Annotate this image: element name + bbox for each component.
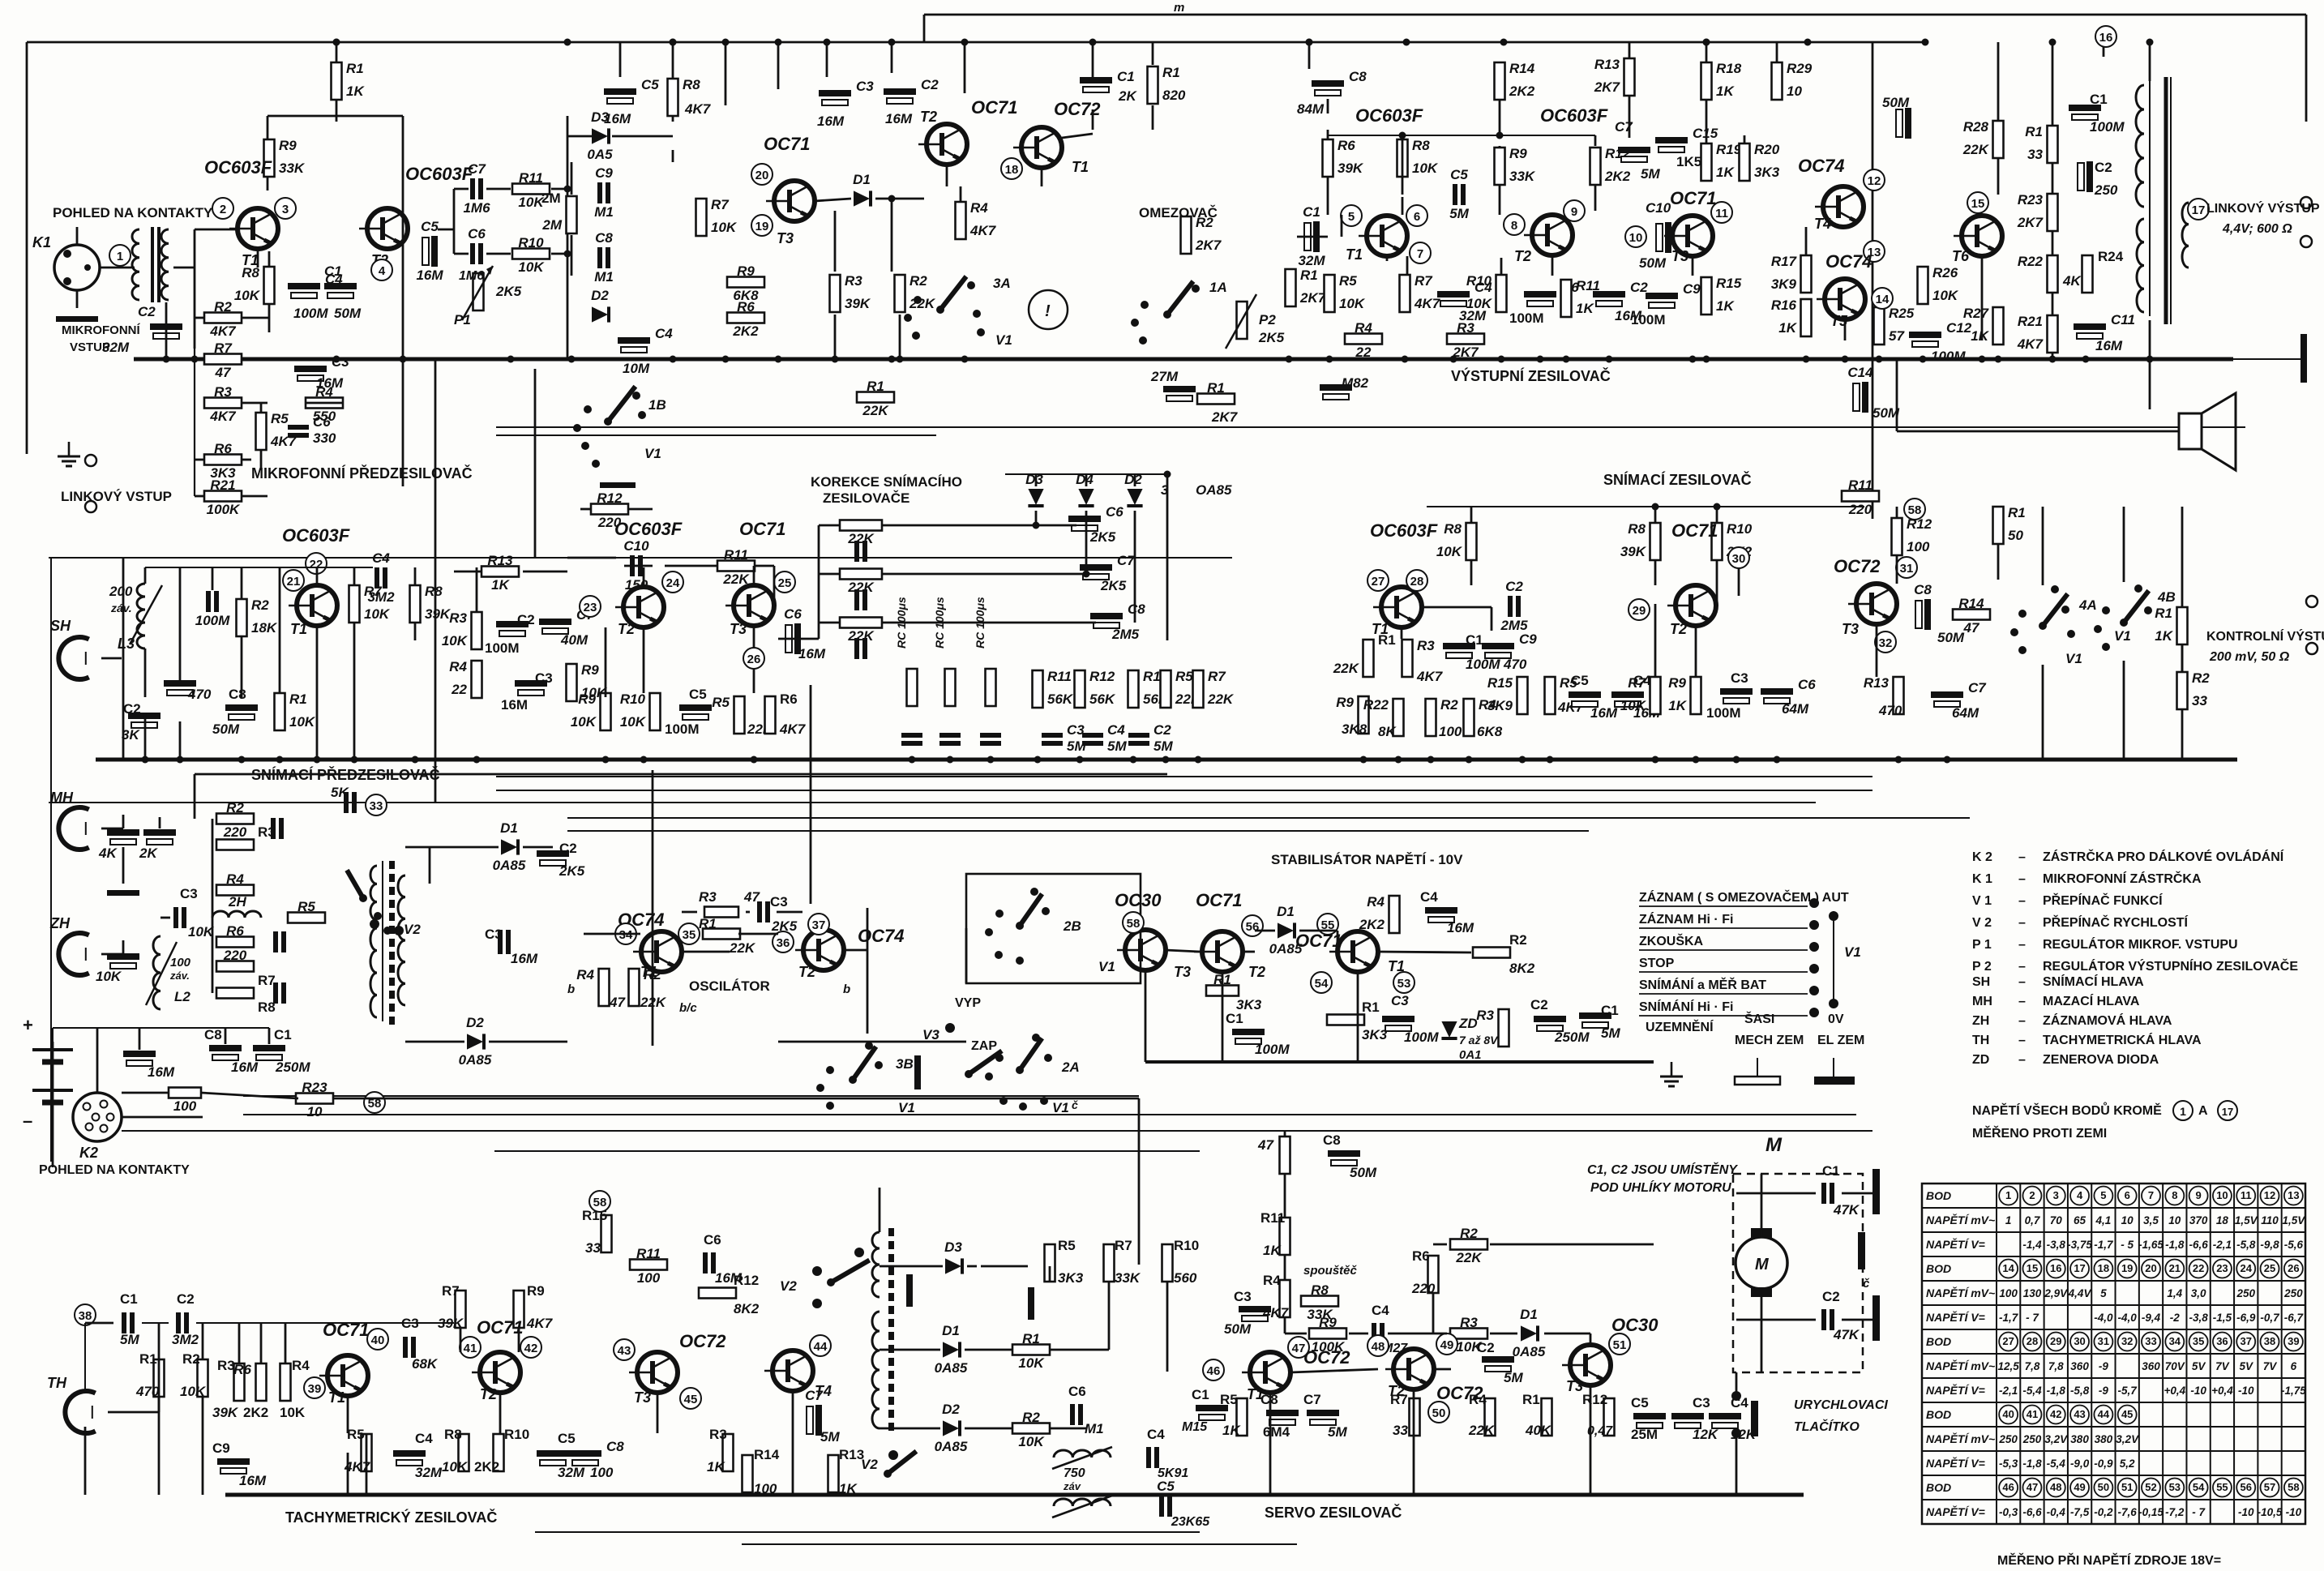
- transistor T3: [774, 181, 815, 221]
- svg-text:R2: R2: [214, 299, 232, 315]
- transistor T2: [803, 930, 844, 970]
- diode D3: [1028, 489, 1043, 506]
- svg-text:R1: R1: [289, 691, 307, 707]
- svg-text:47: 47: [2027, 1481, 2038, 1493]
- svg-text:2K5: 2K5: [495, 284, 522, 299]
- svg-text:R5: R5: [1339, 273, 1357, 289]
- svg-text:ZH: ZH: [49, 915, 71, 931]
- svg-text:100: 100: [170, 956, 191, 970]
- resistor: [1410, 1398, 1420, 1436]
- svg-text:53: 53: [2169, 1481, 2181, 1493]
- svg-text:M: M: [1765, 1134, 1783, 1156]
- svg-text:R3: R3: [709, 1427, 727, 1442]
- svg-text:3K9: 3K9: [1771, 276, 1797, 292]
- svg-text:STABILISÁTOR NAPĚTÍ - 10V: STABILISÁTOR NAPĚTÍ - 10V: [1271, 852, 1463, 867]
- capacitor: [1656, 224, 1663, 251]
- svg-text:-1,4: -1,4: [2022, 1239, 2042, 1251]
- resistor R23: [2048, 194, 2058, 231]
- svg-text:OC74: OC74: [1825, 251, 1872, 272]
- svg-text:0A85: 0A85: [935, 1360, 968, 1376]
- resistor R11: [630, 1260, 667, 1270]
- resistor R3: [830, 275, 841, 312]
- svg-text:42: 42: [2050, 1408, 2061, 1420]
- svg-text:58: 58: [593, 1196, 607, 1209]
- svg-text:40K: 40K: [1525, 1423, 1552, 1438]
- resistor: [198, 1359, 208, 1397]
- svg-text:25: 25: [2264, 1262, 2275, 1274]
- node 58: [1123, 912, 1144, 933]
- capacitor: [1569, 691, 1601, 698]
- resistor: [601, 1215, 612, 1252]
- svg-text:R22: R22: [2018, 254, 2044, 269]
- svg-text:16M: 16M: [148, 1064, 175, 1080]
- svg-text:40: 40: [371, 1333, 385, 1347]
- svg-text:-2,1: -2,1: [2213, 1239, 2232, 1251]
- svg-text:MIKROFONNÍ: MIKROFONNÍ: [62, 323, 140, 337]
- svg-text:250: 250: [2094, 182, 2118, 198]
- resistor R12: [1075, 670, 1085, 708]
- svg-text:38: 38: [79, 1309, 92, 1323]
- resistor R4: [1345, 334, 1382, 345]
- svg-text:-5,4: -5,4: [2047, 1458, 2066, 1470]
- capacitor C8: [1915, 601, 1922, 628]
- svg-text:R4: R4: [970, 200, 988, 216]
- svg-text:50M: 50M: [1882, 95, 1910, 110]
- svg-text:T4: T4: [1814, 216, 1831, 232]
- diode D2: [467, 1034, 484, 1049]
- node 3: [275, 198, 296, 219]
- svg-text:1M6: 1M6: [459, 269, 484, 283]
- svg-text:C2: C2: [1153, 722, 1171, 738]
- svg-text:10K: 10K: [1412, 161, 1439, 176]
- node 31: [1896, 557, 1917, 578]
- svg-text:+: +: [23, 1015, 33, 1035]
- svg-text:16M: 16M: [1590, 705, 1618, 721]
- svg-text:49: 49: [1440, 1338, 1454, 1352]
- svg-text:6: 6: [2125, 1189, 2130, 1201]
- svg-text:220: 220: [1411, 1281, 1436, 1296]
- svg-text:C1: C1: [2090, 92, 2108, 107]
- svg-text:VÝSTUPNÍ ZESILOVAČ: VÝSTUPNÍ ZESILOVAČ: [1451, 367, 1611, 384]
- node 56: [1242, 915, 1263, 936]
- svg-text:R1: R1: [1300, 268, 1318, 283]
- speaker: [2179, 413, 2202, 449]
- urychlovaci button: [1751, 1401, 1758, 1436]
- capacitor: [901, 733, 922, 738]
- svg-text:470: 470: [1878, 703, 1902, 718]
- svg-text:16M: 16M: [416, 268, 443, 283]
- svg-text:4K7: 4K7: [2017, 336, 2044, 352]
- svg-text:TLAČÍTKO: TLAČÍTKO: [1794, 1419, 1860, 1434]
- svg-text:R1: R1: [1162, 65, 1180, 80]
- svg-text:OC71: OC71: [764, 134, 810, 154]
- svg-text:–: –: [2018, 1014, 2026, 1028]
- svg-text:C1: C1: [1117, 69, 1135, 84]
- svg-text:22K: 22K: [1455, 1250, 1483, 1265]
- svg-text:-7,6: -7,6: [2118, 1506, 2138, 1518]
- svg-text:44: 44: [814, 1340, 828, 1354]
- ground: [68, 442, 71, 456]
- svg-text:záv.: záv.: [169, 970, 190, 982]
- svg-text:R21: R21: [2018, 314, 2043, 329]
- svg-text:R9: R9: [578, 691, 596, 707]
- capacitor: [1232, 1029, 1265, 1035]
- capacitor: [273, 982, 278, 1004]
- svg-text:SH: SH: [50, 618, 71, 634]
- svg-text:16: 16: [2099, 31, 2113, 45]
- resistor: [1045, 1244, 1055, 1282]
- capacitor C5: [1159, 1496, 1164, 1517]
- svg-text:250: 250: [2236, 1287, 2255, 1299]
- svg-text:R13: R13: [487, 553, 513, 568]
- svg-text:3K3: 3K3: [1236, 997, 1262, 1012]
- svg-text:NAPĚTÍ V=: NAPĚTÍ V=: [1926, 1456, 1985, 1470]
- svg-text:C5: C5: [1157, 1479, 1175, 1494]
- transistor T1: [1381, 587, 1422, 627]
- node 41: [460, 1337, 481, 1358]
- svg-text:D1: D1: [1520, 1307, 1538, 1322]
- svg-text:4,4V; 600 Ω: 4,4V; 600 Ω: [2222, 222, 2292, 236]
- svg-text:22K: 22K: [847, 628, 875, 644]
- svg-text:5M: 5M: [1641, 166, 1660, 182]
- svg-text:22K: 22K: [1207, 691, 1235, 707]
- svg-text:V1: V1: [1098, 959, 1115, 974]
- svg-text:10K: 10K: [620, 714, 647, 730]
- node 12: [1864, 169, 1885, 190]
- diode D2: [592, 306, 609, 322]
- svg-text:1: 1: [2005, 1214, 2012, 1226]
- svg-text:C6: C6: [1106, 504, 1123, 520]
- switch V2: [347, 870, 363, 898]
- svg-text:200: 200: [109, 584, 133, 599]
- node 58: [589, 1191, 610, 1212]
- svg-text:-10: -10: [2238, 1385, 2254, 1397]
- svg-text:4K7: 4K7: [779, 721, 807, 737]
- svg-text:100K: 100K: [207, 502, 241, 517]
- svg-text:R1: R1: [346, 61, 364, 76]
- resistor: [1104, 1244, 1115, 1282]
- switch 1B: [608, 387, 636, 422]
- svg-text:32M: 32M: [558, 1465, 585, 1480]
- svg-text:250M: 250M: [1554, 1029, 1590, 1045]
- svg-text:R2: R2: [909, 273, 927, 289]
- capacitor: [854, 589, 859, 610]
- svg-text:C8: C8: [595, 230, 613, 246]
- svg-text:OC603F: OC603F: [405, 164, 473, 184]
- svg-text:MIKROFONNÍ ZÁSTRČKA: MIKROFONNÍ ZÁSTRČKA: [2043, 871, 2202, 886]
- capacitor: [1425, 907, 1457, 914]
- ground: [56, 316, 98, 322]
- svg-text:OC71: OC71: [1295, 931, 1342, 951]
- transistor T1: [1337, 931, 1378, 972]
- svg-text:1K: 1K: [1716, 298, 1735, 314]
- ground right: [2300, 334, 2307, 383]
- svg-text:1K: 1K: [491, 577, 510, 593]
- transistor T1: [1367, 216, 1407, 256]
- resistor: [1280, 1218, 1290, 1255]
- svg-text:38: 38: [2264, 1335, 2275, 1347]
- capacitor C4: [1082, 733, 1103, 738]
- capacitor C8: [597, 247, 602, 268]
- capacitor: [757, 901, 762, 922]
- svg-text:-9,0: -9,0: [2070, 1458, 2090, 1470]
- svg-text:-1,8: -1,8: [2022, 1458, 2042, 1470]
- svg-text:29: 29: [1633, 604, 1646, 618]
- svg-text:R1: R1: [699, 916, 717, 931]
- node 23: [580, 596, 601, 617]
- node 46: [1203, 1359, 1224, 1381]
- svg-text:OC71: OC71: [1671, 520, 1718, 541]
- svg-text:-5,3: -5,3: [1999, 1458, 2018, 1470]
- capacitor: [1372, 1323, 1376, 1344]
- svg-text:0A85: 0A85: [935, 1439, 968, 1454]
- svg-text:2M5: 2M5: [1500, 618, 1528, 633]
- svg-text:33: 33: [2192, 693, 2207, 708]
- node 26: [743, 648, 764, 669]
- svg-text:2B: 2B: [1063, 918, 1081, 934]
- svg-text:5: 5: [2100, 1189, 2106, 1201]
- svg-text:C8: C8: [1349, 69, 1367, 84]
- svg-text:10K: 10K: [1436, 544, 1463, 559]
- svg-text:C2: C2: [1530, 997, 1548, 1012]
- svg-text:0V: 0V: [1828, 1012, 1844, 1026]
- svg-text:31: 31: [2098, 1335, 2109, 1347]
- wires F: [1470, 507, 1473, 523]
- svg-text:33: 33: [370, 799, 383, 813]
- svg-text:1K: 1K: [1668, 698, 1687, 713]
- svg-text:5M: 5M: [1067, 738, 1086, 754]
- svg-text:64M: 64M: [1782, 701, 1809, 717]
- svg-text:-3,8: -3,8: [2047, 1239, 2066, 1251]
- svg-text:R10: R10: [1174, 1238, 1199, 1253]
- capacitor: [217, 1458, 250, 1465]
- ground: [107, 890, 139, 896]
- node 15: [1967, 192, 1988, 213]
- svg-text:R6: R6: [214, 441, 232, 456]
- svg-text:2K2: 2K2: [732, 323, 759, 339]
- node 53: [1393, 972, 1415, 993]
- capacitor C7: [807, 1406, 813, 1434]
- svg-text:5M: 5M: [1153, 738, 1173, 754]
- svg-text:-0,2: -0,2: [2094, 1506, 2113, 1518]
- resistor: [459, 1434, 469, 1471]
- svg-text:R4: R4: [1479, 697, 1496, 713]
- svg-text:MĚŘENO PROTI ZEMI: MĚŘENO PROTI ZEMI: [1972, 1125, 2107, 1141]
- svg-text:MH: MH: [1972, 995, 1992, 1008]
- svg-text:č: č: [1072, 1098, 1078, 1111]
- svg-text:NAPĚTÍ V=: NAPĚTÍ V=: [1926, 1505, 1985, 1518]
- svg-text:R23: R23: [302, 1080, 327, 1095]
- svg-text:39K: 39K: [845, 296, 871, 311]
- transistor T2: [1532, 215, 1573, 255]
- resistor R9: [601, 693, 611, 730]
- svg-text:2K2: 2K2: [1509, 83, 1535, 99]
- capacitor: [107, 829, 139, 836]
- svg-text:100M: 100M: [665, 721, 700, 737]
- svg-text:C4: C4: [1147, 1427, 1165, 1442]
- svg-text:5M: 5M: [1504, 1370, 1523, 1385]
- svg-text:L2: L2: [174, 989, 190, 1004]
- svg-text:TH: TH: [47, 1375, 67, 1391]
- svg-text:21: 21: [287, 575, 301, 589]
- svg-text:OC71: OC71: [739, 519, 785, 539]
- diode D2: [943, 1420, 960, 1436]
- svg-text:25M: 25M: [1631, 1427, 1658, 1442]
- transistor T2: [367, 208, 408, 249]
- svg-text:R9: R9: [527, 1283, 545, 1299]
- resistor: [234, 1363, 245, 1401]
- resistor: [704, 907, 738, 918]
- svg-text:26: 26: [747, 653, 761, 666]
- svg-text:0,7: 0,7: [2025, 1214, 2041, 1226]
- capacitor C6: [1761, 688, 1793, 695]
- node 45: [680, 1388, 701, 1409]
- svg-text:0A85: 0A85: [1269, 941, 1303, 957]
- svg-text:4K7: 4K7: [526, 1316, 554, 1331]
- svg-text:3K3: 3K3: [1058, 1270, 1084, 1286]
- svg-text:360: 360: [2142, 1360, 2160, 1372]
- svg-text:16M: 16M: [239, 1473, 267, 1488]
- svg-text:15: 15: [1971, 197, 1985, 211]
- resistor R5: [256, 413, 267, 450]
- diode D3: [592, 128, 609, 143]
- svg-text:OC71: OC71: [971, 97, 1017, 118]
- wires L: [85, 1322, 113, 1325]
- svg-text:C3: C3: [332, 354, 349, 370]
- node 35: [678, 923, 700, 944]
- resistor R15: [1517, 677, 1528, 714]
- capacitor: [107, 953, 139, 960]
- resistor R5: [288, 913, 325, 923]
- resistor R14: [1495, 62, 1505, 100]
- svg-text:25: 25: [778, 576, 792, 590]
- svg-text:R13: R13: [1864, 675, 1890, 691]
- svg-text:2K5: 2K5: [1089, 529, 1116, 545]
- svg-text:32M: 32M: [415, 1465, 443, 1480]
- diode D3: [945, 1258, 962, 1273]
- svg-text:-0,7: -0,7: [2260, 1312, 2280, 1324]
- svg-text:-1,75: -1,75: [2281, 1385, 2306, 1397]
- svg-text:-6,9: -6,9: [2236, 1312, 2256, 1324]
- svg-text:R17: R17: [1771, 254, 1798, 269]
- svg-text:10K: 10K: [1620, 698, 1647, 713]
- svg-text:6K8: 6K8: [1477, 724, 1503, 739]
- svg-text:1: 1: [2180, 1105, 2186, 1118]
- svg-text:33K: 33K: [1307, 1307, 1333, 1322]
- svg-text:C2: C2: [123, 701, 141, 717]
- capacitor: [1709, 1413, 1741, 1419]
- svg-text:R6: R6: [1412, 1248, 1430, 1264]
- svg-text:PŘEPÍNAČ FUNKCÍ: PŘEPÍNAČ FUNKCÍ: [2043, 893, 2163, 908]
- svg-text:37: 37: [2240, 1335, 2251, 1347]
- capacitor C4: [288, 283, 320, 289]
- output transformer: [2149, 81, 2151, 316]
- svg-text:10K: 10K: [518, 259, 545, 275]
- svg-text:R8: R8: [1444, 521, 1462, 537]
- resistor: [828, 1455, 839, 1492]
- resistor: [216, 988, 254, 999]
- svg-text:R1: R1: [139, 1351, 157, 1367]
- resistor R2: [204, 313, 242, 323]
- svg-text:1K: 1K: [1222, 1423, 1241, 1438]
- svg-text:56: 56: [1246, 920, 1260, 934]
- switch V2c: [888, 1451, 916, 1474]
- svg-text:- 5: - 5: [2121, 1239, 2134, 1251]
- svg-text:C3: C3: [1391, 993, 1409, 1008]
- svg-text:2K7: 2K7: [1594, 79, 1621, 95]
- diode D1: [943, 1342, 960, 1357]
- node 48: [1367, 1335, 1389, 1356]
- node 9: [1564, 200, 1585, 221]
- capacitor: [253, 1045, 285, 1051]
- svg-text:R1: R1: [1522, 1392, 1540, 1407]
- resistor R3: [204, 398, 242, 409]
- svg-text:OA85: OA85: [1196, 482, 1232, 498]
- svg-text:47: 47: [1257, 1137, 1274, 1153]
- svg-text:spouštěč: spouštěč: [1303, 1264, 1358, 1278]
- svg-text:C2: C2: [921, 77, 939, 92]
- resistor: [765, 696, 776, 734]
- node 2: [212, 198, 233, 219]
- svg-text:-2,1: -2,1: [1999, 1385, 2018, 1397]
- svg-text:50M: 50M: [1224, 1321, 1252, 1337]
- svg-text:D1: D1: [942, 1323, 960, 1338]
- svg-text:C4: C4: [1107, 722, 1125, 738]
- wire top supply rail: [27, 41, 1872, 44]
- svg-text:C5: C5: [689, 687, 707, 702]
- svg-text:K 2: K 2: [1972, 850, 1992, 864]
- svg-text:R5: R5: [712, 695, 730, 710]
- svg-text:NAPĚTÍ V=: NAPĚTÍ V=: [1926, 1310, 1985, 1324]
- svg-text:10K: 10K: [1018, 1434, 1045, 1449]
- resistor R7: [204, 354, 242, 365]
- resistor: [1237, 302, 1248, 339]
- svg-text:29: 29: [2050, 1335, 2061, 1347]
- svg-text:C8: C8: [229, 687, 246, 702]
- svg-text:39K: 39K: [425, 606, 452, 622]
- svg-text:R5: R5: [347, 1427, 365, 1442]
- svg-text:R3: R3: [1476, 1008, 1494, 1023]
- resistor R10: [650, 693, 661, 730]
- svg-text:3K8: 3K8: [1342, 721, 1367, 737]
- svg-text:R10: R10: [1727, 521, 1753, 537]
- capacitor: [164, 680, 196, 687]
- svg-text:220: 220: [1848, 502, 1872, 517]
- svg-text:50M: 50M: [1639, 255, 1667, 271]
- wires switch 4ab: [2042, 507, 2044, 585]
- svg-text:23: 23: [2216, 1262, 2228, 1274]
- capacitor C3: [1042, 733, 1063, 738]
- svg-text:110: 110: [2261, 1214, 2279, 1226]
- transistor T4: [1823, 186, 1864, 227]
- resistor R17: [1801, 255, 1812, 293]
- svg-text:R6: R6: [233, 1362, 251, 1377]
- svg-text:A: A: [2198, 1104, 2208, 1118]
- svg-text:-0,3: -0,3: [1999, 1506, 2018, 1518]
- svg-text:1: 1: [117, 250, 123, 263]
- svg-text:22K: 22K: [847, 580, 875, 595]
- svg-text:M1: M1: [594, 269, 614, 285]
- capacitor C14: [1853, 383, 1860, 411]
- svg-text:100M: 100M: [2090, 119, 2125, 135]
- resistor R11: [717, 561, 755, 571]
- wire stabilizer rails: [567, 817, 1970, 819]
- capacitor: [1611, 691, 1644, 698]
- svg-text:35: 35: [2193, 1335, 2204, 1347]
- svg-text:-0,9: -0,9: [2094, 1458, 2113, 1470]
- svg-text:-9,4: -9,4: [2142, 1312, 2161, 1324]
- capacitor: [1720, 688, 1753, 695]
